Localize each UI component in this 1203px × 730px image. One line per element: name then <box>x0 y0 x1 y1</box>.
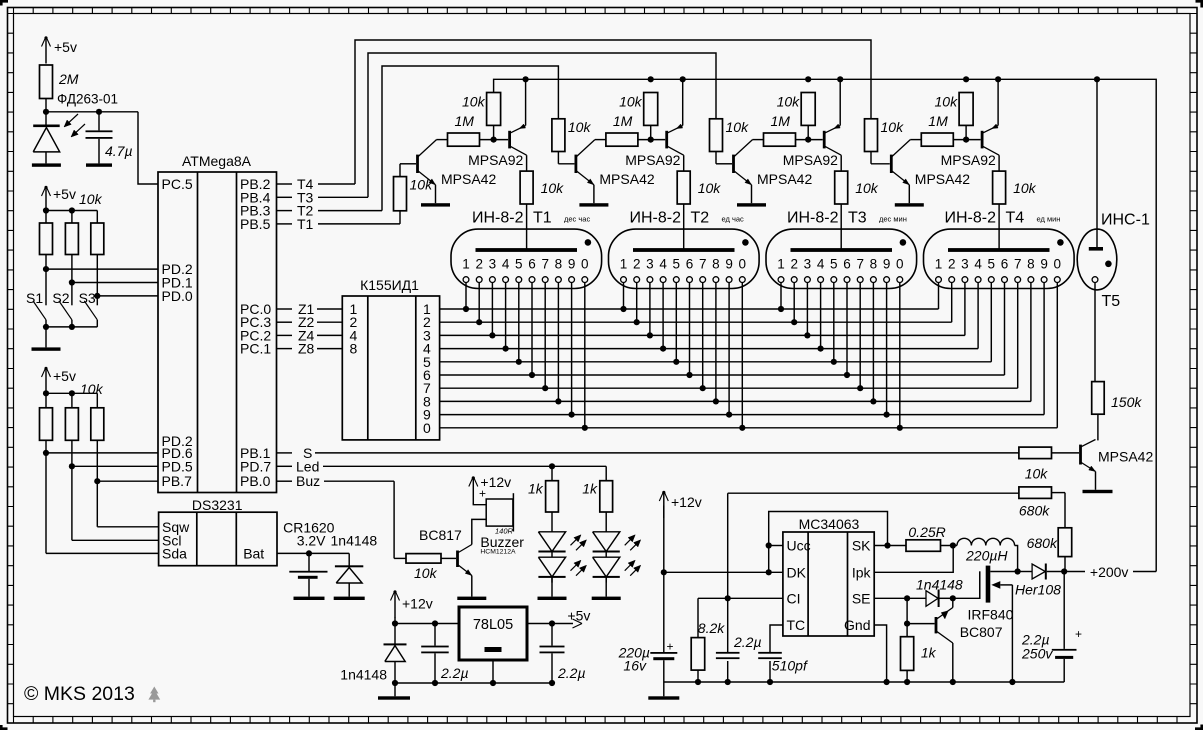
svg-text:16v: 16v <box>623 658 647 674</box>
diode 1n4148 (78L05) <box>384 643 407 645</box>
svg-text:5: 5 <box>515 257 523 272</box>
svg-text:3: 3 <box>961 257 969 272</box>
resistor 10k base (driver 1) <box>394 177 407 211</box>
LEDs chain B <box>605 512 607 532</box>
net +200v <box>1064 571 1085 573</box>
wire anode (driver 1) <box>526 204 528 249</box>
power +12v (boost) <box>663 493 665 518</box>
svg-text:1n4148: 1n4148 <box>340 667 387 683</box>
capacitor 2.2µ 250v <box>1063 572 1065 649</box>
svg-text:HCM1212A: HCM1212A <box>480 549 516 556</box>
junction +200v (driver 2) <box>648 76 654 82</box>
svg-text:8: 8 <box>350 341 358 357</box>
resistor 10k anode (driver 3) <box>840 155 842 171</box>
svg-text:1M: 1M <box>455 113 475 129</box>
wire feedback <box>728 492 1019 494</box>
svg-text:1M: 1M <box>613 113 633 129</box>
transistor MPSA42 (driver 4) <box>890 155 893 173</box>
diode Her108 <box>1018 571 1033 573</box>
wire L1-drain <box>1015 546 1018 572</box>
wire pullup rail <box>45 394 47 408</box>
svg-text:ИН-8-2: ИН-8-2 <box>630 210 682 227</box>
svg-text:10k: 10k <box>726 119 750 135</box>
svg-text:5: 5 <box>830 257 838 272</box>
svg-text:6: 6 <box>528 257 536 272</box>
svg-text:+5v: +5v <box>54 39 77 55</box>
svg-text:10k: 10k <box>79 191 103 207</box>
wire emitter (driver 4) <box>908 185 910 203</box>
wire switch common <box>46 326 97 328</box>
svg-text:4: 4 <box>502 257 510 272</box>
svg-text:3: 3 <box>804 257 812 272</box>
ground (78L05) <box>378 696 410 699</box>
svg-text:+5v: +5v <box>53 368 76 384</box>
wire boost gnd rail <box>664 681 1064 683</box>
svg-text:0: 0 <box>423 420 431 436</box>
resistor 10k anode (driver 2) <box>683 155 685 171</box>
ground (boost) <box>648 696 679 699</box>
svg-text:220µH: 220µH <box>965 548 1008 564</box>
wire BC817 emitter <box>471 576 473 597</box>
svg-text:ед час: ед час <box>722 215 745 224</box>
svg-text:10k: 10k <box>568 119 592 135</box>
wire PD.6/Sda <box>45 440 47 553</box>
svg-text:0: 0 <box>1054 257 1062 272</box>
svg-text:ИН-8-2: ИН-8-2 <box>787 210 839 227</box>
net T3 <box>277 196 293 198</box>
svg-text:+5v: +5v <box>567 608 590 624</box>
svg-text:3: 3 <box>646 257 654 272</box>
resistor 1k (LED A) <box>546 481 559 512</box>
wire Led run <box>552 465 606 467</box>
resistor 10k (S3) <box>91 223 104 255</box>
svg-text:10k: 10k <box>410 177 434 193</box>
svg-text:PB.7: PB.7 <box>162 473 193 489</box>
svg-text:10k: 10k <box>881 119 905 135</box>
transistor MPSA42 (driver 1) <box>416 155 419 173</box>
capacitor 2.2µ (CI) <box>727 493 729 652</box>
svg-text:1M: 1M <box>928 113 948 129</box>
svg-text:+12v: +12v <box>402 596 433 612</box>
svg-text:7: 7 <box>1014 257 1022 272</box>
wire PD.2 <box>45 255 47 306</box>
wire Ucc bridge <box>769 545 783 547</box>
svg-text:Buz: Buz <box>296 473 320 489</box>
svg-text:+: + <box>1075 627 1082 641</box>
svg-text:К155ИД1: К155ИД1 <box>360 277 419 293</box>
transistor MPSA42 (T5) <box>1079 445 1082 465</box>
svg-text:10k: 10k <box>855 180 879 196</box>
svg-text:Gnd: Gnd <box>844 617 870 633</box>
wire +12v stem <box>663 506 665 653</box>
svg-text:MPSA42: MPSA42 <box>599 171 654 187</box>
power +12v (buzzer) <box>472 479 474 504</box>
svg-text:9: 9 <box>725 257 733 272</box>
power +12v (78L05) <box>394 593 396 618</box>
transistor BC817 <box>456 551 459 568</box>
svg-text:10k: 10k <box>1025 466 1049 482</box>
resistor 10k base (driver 4) <box>865 119 878 152</box>
junction +200v (driver 3) <box>805 76 811 82</box>
svg-text:7: 7 <box>541 257 549 272</box>
ground (T5 driver) <box>1083 490 1113 493</box>
svg-text:MPSA92: MPSA92 <box>625 152 680 168</box>
svg-text:Bat: Bat <box>243 545 264 561</box>
svg-text:1k: 1k <box>921 645 937 661</box>
wire divider <box>906 598 908 636</box>
svg-text:1n4148: 1n4148 <box>331 533 378 549</box>
svg-text:4: 4 <box>817 257 825 272</box>
wire PD.1 <box>71 255 73 306</box>
wire SK-L1 <box>941 545 958 547</box>
wire emitter (T5) <box>1095 472 1097 490</box>
svg-text:SK: SK <box>852 538 871 554</box>
svg-text:T1: T1 <box>297 216 314 232</box>
svg-text:Т4: Т4 <box>1006 210 1025 227</box>
resistor 10k (S line) <box>1019 447 1052 459</box>
net Buz <box>277 480 293 482</box>
capacitor 510pf <box>758 652 782 654</box>
transistor IRF840 <box>979 571 981 598</box>
ground (driver 2) <box>579 203 608 206</box>
nixie tube T3 ИН-8-2 <box>766 229 917 288</box>
net T1 <box>277 223 293 225</box>
resistor 1M (driver 2) <box>606 133 638 146</box>
svg-text:ИН-8-2: ИН-8-2 <box>472 210 524 227</box>
wire +200v rail <box>494 79 1157 571</box>
resistor 1M (driver 1) <box>448 133 480 146</box>
svg-text:CI: CI <box>787 590 801 606</box>
svg-text:8: 8 <box>555 257 563 272</box>
battery CR1620 <box>308 553 310 571</box>
wire Bat <box>277 552 349 554</box>
resistor 680k (upper) <box>1019 487 1052 499</box>
ground (driver 3) <box>737 203 766 206</box>
ground (1n4148) <box>334 597 365 600</box>
resistor 10k (S2) <box>65 223 78 255</box>
svg-text:дес час: дес час <box>564 215 590 224</box>
svg-text:5: 5 <box>673 257 681 272</box>
net Led <box>277 465 293 467</box>
svg-text:Т1: Т1 <box>533 210 552 227</box>
svg-text:PB.5: PB.5 <box>240 216 271 232</box>
svg-text:10k: 10k <box>462 94 486 110</box>
wire 1M-base92 (driver 1) <box>480 139 509 141</box>
svg-text:0: 0 <box>896 257 904 272</box>
svg-text:7: 7 <box>856 257 864 272</box>
capacitor 2.2µ (out) <box>551 624 553 646</box>
nixie tube T2 ИН-8-2 <box>609 229 760 288</box>
wire BC817 collector <box>472 519 486 544</box>
svg-text:8.2k: 8.2k <box>698 620 725 636</box>
net Z4 <box>277 334 293 336</box>
transistor MPSA92 (driver 3) <box>823 131 826 149</box>
net T4 <box>277 183 293 185</box>
svg-text:S3: S3 <box>79 290 96 306</box>
ground (LED B) <box>592 597 621 600</box>
svg-text:10k: 10k <box>619 94 643 110</box>
svg-text:6: 6 <box>1001 257 1009 272</box>
svg-text:+: + <box>479 487 486 501</box>
wire emitter (driver 2) <box>593 185 595 203</box>
svg-text:10k: 10k <box>541 180 565 196</box>
svg-text:0.25R: 0.25R <box>908 524 945 540</box>
svg-text:4.7µ: 4.7µ <box>105 143 133 159</box>
svg-text:7: 7 <box>699 257 707 272</box>
cathode bus lines <box>440 308 939 310</box>
wire DK <box>664 571 783 573</box>
wire base (driver 4) <box>870 152 872 164</box>
svg-text:0: 0 <box>739 257 747 272</box>
svg-text:2: 2 <box>475 257 483 272</box>
svg-text:BC817: BC817 <box>419 527 462 543</box>
transistor MPSA92 (driver 1) <box>508 131 511 149</box>
svg-text:1k: 1k <box>582 481 598 497</box>
capacitor 4.7µ <box>98 112 100 131</box>
wire SK <box>874 545 906 547</box>
wire T2 rail <box>382 66 558 211</box>
svg-text:PD.0: PD.0 <box>162 288 193 304</box>
svg-text:10k: 10k <box>80 381 104 397</box>
svg-text:ед мин: ед мин <box>1037 215 1061 224</box>
svg-text:IRF840: IRF840 <box>968 607 1014 623</box>
resistor 1M (driver 4) <box>921 133 953 146</box>
wire base (driver 3) <box>715 152 717 164</box>
wire PB.7/Sqw <box>96 440 98 527</box>
net Z1 <box>277 308 293 310</box>
svg-text:78L05: 78L05 <box>473 617 513 633</box>
svg-text:150k: 150k <box>1111 394 1142 410</box>
wire CI <box>698 597 783 599</box>
LEDs chain A <box>551 512 553 532</box>
svg-text:MPSA92: MPSA92 <box>468 152 523 168</box>
resistor 10k anode (driver 4) <box>998 155 1000 171</box>
svg-text:PC.5: PC.5 <box>162 176 193 192</box>
wire T3 rail <box>368 53 716 197</box>
wire 680k-200v <box>1064 557 1066 572</box>
wire emitter (driver 1) <box>435 185 437 203</box>
svg-text:PD.7: PD.7 <box>240 458 271 474</box>
corner marks <box>0 0 8 6</box>
inductor 220µH <box>957 538 1015 545</box>
resistor 10k pullup (driver 3) <box>801 93 815 126</box>
wire TC <box>770 625 783 652</box>
regulator 78L05 <box>459 607 527 660</box>
wire to PC.5 <box>138 112 158 184</box>
svg-text:2.2µ: 2.2µ <box>733 634 762 650</box>
wire T1 riser <box>399 211 401 224</box>
wire anode (driver 2) <box>683 204 685 249</box>
power +5v (sensor) <box>45 39 47 64</box>
resistor 10k pullup (driver 1) <box>487 93 501 126</box>
svg-text:3: 3 <box>489 257 497 272</box>
wire Buz run <box>393 481 395 558</box>
svg-text:SE: SE <box>852 590 871 606</box>
svg-text:2: 2 <box>790 257 798 272</box>
wire Ipk <box>874 548 953 572</box>
wire sensor node <box>45 99 47 125</box>
resistor 10k (buzzer) <box>406 554 441 564</box>
wire PD.0 <box>96 255 98 306</box>
svg-text:MPSA42: MPSA42 <box>915 171 970 187</box>
svg-text:1k: 1k <box>528 481 544 497</box>
resistor 2M <box>40 65 53 99</box>
svg-text:DK: DK <box>787 564 807 580</box>
ground (switches) <box>32 347 61 350</box>
transistor MPSA92 (driver 2) <box>665 131 668 149</box>
wire anode (driver 3) <box>840 204 842 249</box>
resistor 1k (LED B) <box>600 481 613 512</box>
transistor BC807 <box>935 617 938 633</box>
svg-text:+200v: +200v <box>1090 564 1129 580</box>
svg-text:Led: Led <box>296 458 319 474</box>
svg-text:Z8: Z8 <box>298 341 315 357</box>
svg-text:6: 6 <box>686 257 694 272</box>
svg-text:+: + <box>667 640 674 654</box>
resistor 1M (driver 3) <box>764 133 796 146</box>
wire emitter92 (driver 3) <box>839 79 841 125</box>
resistor 10k base (driver 2) <box>552 119 565 152</box>
svg-text:ИН-8-2: ИН-8-2 <box>945 210 997 227</box>
svg-text:PC.1: PC.1 <box>240 341 271 357</box>
svg-text:8: 8 <box>1027 257 1035 272</box>
svg-text:2M: 2M <box>58 71 79 87</box>
svg-text:10k: 10k <box>414 565 438 581</box>
resistor 10k pullup (driver 2) <box>644 93 658 126</box>
wire +12v node <box>394 617 396 624</box>
svg-text:MPSA92: MPSA92 <box>783 152 838 168</box>
transistor MPSA42 (driver 2) <box>575 155 578 173</box>
ground (driver 1) <box>421 203 450 206</box>
svg-text:0: 0 <box>581 257 589 272</box>
wire T4 rail <box>355 40 871 184</box>
svg-text:Ucc: Ucc <box>787 538 811 554</box>
svg-text:PB.0: PB.0 <box>240 473 271 489</box>
svg-text:Т5: Т5 <box>1102 293 1121 310</box>
wire 78L05 gnd rail <box>395 682 552 684</box>
resistor 680k (lower) <box>1058 528 1072 557</box>
svg-text:PD.5: PD.5 <box>162 458 193 474</box>
power +5v (I2C pullups) <box>45 369 47 394</box>
svg-text:Her108: Her108 <box>1015 582 1061 598</box>
svg-text:Ipk: Ipk <box>852 564 872 580</box>
ground (LED A) <box>538 597 567 600</box>
resistor 10k (Sqw) <box>91 408 104 441</box>
svg-text:6: 6 <box>843 257 851 272</box>
wire SE <box>874 597 926 599</box>
resistor 10k base (driver 3) <box>710 119 723 152</box>
svg-text:9: 9 <box>568 257 576 272</box>
svg-text:+12v: +12v <box>671 494 702 510</box>
junction +200v (driver 4) <box>963 76 969 82</box>
svg-text:1: 1 <box>462 257 470 272</box>
svg-text:+5v: +5v <box>53 186 76 202</box>
svg-text:2: 2 <box>948 257 956 272</box>
svg-text:2.2µ: 2.2µ <box>440 665 469 681</box>
svg-text:4: 4 <box>659 257 667 272</box>
wire gnd pin <box>874 625 886 682</box>
svg-text:дес мин: дес мин <box>879 215 907 224</box>
wire 1M-base92 (driver 4) <box>953 139 980 141</box>
photodiode ФД263-01 <box>33 125 60 128</box>
wire base (driver 1) <box>399 164 401 177</box>
svg-text:DS3231: DS3231 <box>192 497 243 513</box>
svg-text:680k: 680k <box>1027 535 1058 551</box>
wire emitter92 (driver 2) <box>682 79 684 125</box>
net S <box>277 452 293 454</box>
svg-text:Т2: Т2 <box>691 210 710 227</box>
ground (driver 4) <box>895 203 924 206</box>
svg-text:Т3: Т3 <box>848 210 867 227</box>
transistor MPSA42 (driver 3) <box>732 155 735 173</box>
svg-text:10k: 10k <box>777 94 801 110</box>
neon tube T5 ИНС-1 <box>1077 229 1117 290</box>
wire 150k-collector <box>1097 414 1099 440</box>
svg-text:680k: 680k <box>1019 503 1050 519</box>
svg-text:2: 2 <box>633 257 641 272</box>
svg-text:TC: TC <box>787 617 806 633</box>
svg-text:1: 1 <box>777 257 785 272</box>
wire anode (driver 4) <box>998 204 1000 249</box>
svg-text:10k: 10k <box>698 180 722 196</box>
svg-text:© MKS 2013: © MKS 2013 <box>24 683 135 705</box>
svg-text:BC807: BC807 <box>960 624 1003 640</box>
resistor 10k pullup (driver 4) <box>959 93 973 126</box>
capacitor 2.2µ (in) <box>434 624 436 646</box>
svg-text:ATMega8A: ATMega8A <box>182 153 252 169</box>
ground (photodiode) <box>32 163 61 166</box>
net T2 <box>277 210 293 212</box>
svg-text:4: 4 <box>974 257 982 272</box>
svg-text:8: 8 <box>870 257 878 272</box>
ground (battery) <box>294 597 325 600</box>
resistor 10k (Sda) <box>40 408 53 441</box>
svg-text:MPSA92: MPSA92 <box>941 152 996 168</box>
wire emitter92 (driver 4) <box>997 79 999 125</box>
wire PD.5/Scl <box>71 440 73 540</box>
svg-text:1: 1 <box>620 257 628 272</box>
wire 1M-base92 (driver 2) <box>638 139 665 141</box>
resistor 1k (BC807) <box>901 637 914 671</box>
resistor 10k (Scl) <box>65 408 78 441</box>
svg-text:MPSA42: MPSA42 <box>1098 449 1153 465</box>
resistor 0.25R <box>906 540 941 552</box>
net Z2 <box>277 321 293 323</box>
svg-text:MPSA42: MPSA42 <box>757 171 812 187</box>
svg-text:9: 9 <box>883 257 891 272</box>
wire SE-gate <box>953 571 980 598</box>
nixie tube T1 ИН-8-2 <box>451 229 602 288</box>
svg-text:1M: 1M <box>771 113 791 129</box>
svg-text:ФД263-01: ФД263-01 <box>57 92 118 107</box>
svg-text:9: 9 <box>1040 257 1048 272</box>
resistor 150k <box>1092 382 1105 415</box>
transistor MPSA92 (driver 4) <box>981 131 984 149</box>
wire emitter92 (driver 1) <box>525 79 527 125</box>
resistor 10k anode (driver 1) <box>526 155 528 171</box>
svg-text:8: 8 <box>712 257 720 272</box>
svg-text:MC34063: MC34063 <box>799 516 860 532</box>
svg-text:1: 1 <box>935 257 943 272</box>
net Z8 <box>277 348 293 350</box>
ground (BC817) <box>457 597 486 600</box>
nixie tube T4 ИН-8-2 <box>924 229 1075 288</box>
resistor 10k (S1) <box>40 223 53 255</box>
diode 1n4148 (battery) <box>348 553 350 565</box>
wire emitter (driver 3) <box>751 185 753 203</box>
wire 1M-base92 (driver 3) <box>796 139 823 141</box>
svg-text:3.2V: 3.2V <box>297 533 326 549</box>
